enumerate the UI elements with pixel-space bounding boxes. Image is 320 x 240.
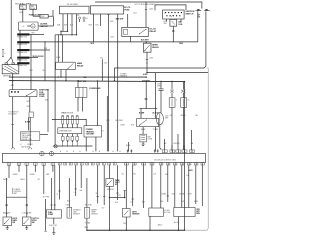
stub wire a [57,165,61,199]
wire top feed vertical [145,2,153,27]
svg-text:GRN/B: GRN/B [179,194,184,196]
wire top feed [95,2,202,9]
switch S3 label [32,218,40,224]
ignition coil assembly [9,90,37,97]
wire capacitor drops [172,107,184,151]
fusible link label dark [29,14,41,16]
cross junction a [170,90,174,93]
svg-text:B: B [20,144,21,146]
label B-SER [25,121,31,123]
ECU bottom pins middle [125,163,154,165]
svg-text:1.25B: 1.25B [149,57,153,59]
svg-text:TEMP: TEMP [91,212,95,214]
wire switch sub drop [172,26,174,42]
wire corner up to connector [197,11,199,42]
exhaust gas sensor label [73,209,81,216]
bracket marker [2,50,6,57]
svg-text:FUSIBLE LINK: FUSIBLE LINK [17,52,27,54]
HOT IN RUN label [135,3,156,6]
ignition coil label [39,90,48,99]
label GRN [66,204,70,206]
knock sensor box [106,179,114,187]
ECU top connector circle b [49,151,54,156]
svg-text:CONTROL: CONTROL [13,191,21,193]
verticals to ECU mid [107,81,128,151]
label B-SER mid [139,112,159,114]
wire x184 long [184,82,186,152]
connector ticks EGI wires [50,204,56,206]
water temp sensor label [91,209,99,216]
fusible link bar stack [17,33,29,67]
detonation sensor label [132,212,140,216]
knock sensor label [115,179,121,186]
throttle valve switch box [137,118,159,126]
svg-text:1.25B: 1.25B [149,9,153,11]
svg-text:SENSOR: SENSOR [132,214,140,216]
FL holder label [67,4,79,6]
connector bars right [157,83,164,90]
ECU bottom pins left [7,163,54,166]
fusible link symbol F/L a [77,15,81,22]
wire condenser feed [77,80,78,88]
wire distributor ground run [53,142,93,147]
label TO TAIL [85,221,91,224]
fusible link symbol F/L b [83,17,88,22]
resistor R1 box [140,134,147,142]
svg-text:W-B: W-B [67,200,70,202]
svg-text:SLT PRK: SLT PRK [43,197,50,199]
wire to voltage regulator [33,15,40,17]
wire bar3 right [30,48,51,50]
svg-text:CONDENSER: CONDENSER [89,88,101,90]
wire long vertical left of relay [104,15,114,152]
labels below capacitors [170,115,198,117]
wire EGI pair [52,165,55,210]
labels mid verticals [106,120,131,147]
svg-text:PPL: PPL [118,195,121,197]
stub wire d [96,165,99,203]
battery B1 [2,57,19,74]
condenser label [89,88,101,90]
wire FL2 drop [67,14,69,32]
wire branch y197 [6,178,27,217]
wires to bottom right boxes [161,165,203,208]
distributor box [58,128,82,134]
svg-text:F/L: F/L [77,15,79,17]
fusible link FL1 [20,5,27,22]
svg-text:B-W: B-W [131,124,135,126]
connector bar top right a [196,9,202,11]
svg-text:SENSOR: SENSOR [73,214,81,216]
AC speed switch box [149,208,164,216]
svg-text:F: F [5,53,6,55]
svg-text:SENSOR: SENSOR [107,189,115,191]
spark plug set upper [62,116,79,128]
wire coil right node [45,89,49,132]
wire left ECU drop [11,112,14,149]
svg-text:GM: GM [83,77,86,79]
ECU bottom pins mid [58,163,116,165]
ECU top pin pairs [162,150,194,153]
dark label row right of bars [33,56,45,58]
svg-text:B-SER: B-SER [139,112,145,114]
svg-text:RELAY: RELAY [150,30,157,33]
svg-text:FUSIBLE LINK: FUSIBLE LINK [29,14,41,16]
svg-text:B-W: B-W [111,37,115,39]
svg-text:TOR UNIT: TOR UNIT [86,133,95,135]
ignition switch label [185,11,194,15]
wires below pins left [9,165,53,172]
wire inhibitor top [146,41,147,43]
wire right edge drop [185,68,209,230]
ignition switch S1 [163,10,185,19]
exhaust gas sensor box [67,208,72,219]
accessory block label [178,22,183,26]
svg-text:F/L: F/L [86,18,88,20]
accessory block box [170,19,177,26]
svg-text:GHT: GHT [181,201,184,203]
wire condenser drops [78,98,83,105]
wire coil ECU drop pair [28,112,33,149]
svg-text:W-R B-W W-R: W-R B-W W-R [33,56,45,58]
main relay label [77,62,84,67]
wire note link [40,134,48,136]
extra labels texture top [16,13,167,62]
svg-text:G-B: G-B [79,190,82,192]
oval condenser C2 [156,113,163,125]
EGI control box [47,210,62,218]
ground below S3 [25,226,28,230]
fuse block 2 box [90,6,123,14]
labels y201 right [160,201,199,203]
wire condenser to plug bus [78,104,83,112]
svg-text:BLK WHT: BLK WHT [141,40,150,42]
svg-text:SW: SW [12,222,15,224]
wires into right pins [165,130,192,150]
labels y194 right [162,194,192,196]
svg-text:B-R-BLK: B-R-BLK [174,143,181,145]
connector ticks S2 wire [5,205,7,213]
svg-text:SLT: SLT [37,179,40,181]
wire switch drop b [180,19,182,23]
svg-text:HOT IN RUN AND START: HOT IN RUN AND START [135,3,156,6]
refer note box [20,132,40,141]
wire box2 to x117 [116,14,125,81]
svg-text:RELAY: RELAY [77,65,84,68]
svg-text:~ G: ~ G [21,26,25,28]
inhibitor relay label [152,45,159,49]
labels y179 [3,178,40,181]
wire relay bottom drop [129,36,131,42]
node: HOT AT ALL TIMES label [15,2,32,5]
svg-text:W-L: W-L [100,58,103,60]
wire to main relay 1 [58,34,59,62]
labels below pins left [13,174,50,176]
svg-text:SWITCH: SWITCH [185,14,193,16]
to main harness note [120,73,127,78]
alternator U1 [18,22,38,30]
wire x184 to bus [184,151,186,230]
svg-text:Cs: Cs [187,99,189,101]
svg-text:W-B W-SER: W-B W-SER [21,146,31,148]
svg-text:LG/B: LG/B [188,194,192,196]
svg-text:W-B: W-B [123,223,126,225]
svg-text:YEL GRN: YEL GRN [85,204,93,206]
connector A/T label [198,13,201,18]
EC relay label [150,28,157,32]
svg-text:PUMP: PUMP [48,214,54,216]
vehicle speed sensor label [196,209,200,215]
wire W-R label [19,12,23,14]
wire PT feeds [86,81,97,126]
connector circle-cross a [54,145,57,148]
svg-text:ACT TAN: ACT TAN [78,80,86,83]
spark plugs label [61,112,74,115]
wire x143 drop [142,165,146,208]
labels above right pins [164,142,193,145]
wire throttle feed drop [145,73,156,109]
cross junction b [181,90,185,93]
wire FL3 drop [71,14,73,35]
connector ticks S3 wire [26,205,28,213]
right bus components feed [161,82,184,90]
wire to main relay 2 [62,35,64,62]
svg-text:RELAY: RELAY [152,46,159,49]
svg-text:S GM: S GM [56,57,61,59]
ECU top connector circle a [40,151,45,156]
label 4C SPD [164,210,171,214]
svg-text:BLK WHT: BLK WHT [116,19,125,21]
wire检 y117 labels [120,124,134,126]
wire coil left drop [12,97,14,112]
wire sw1 drop [6,178,8,217]
wire branch knock [109,191,126,199]
water temp sensor box [85,208,90,219]
svg-text:GB: GB [195,115,197,117]
vehicle speed sensor box [174,208,195,217]
label SLT PRK [43,197,50,199]
svg-text:W-L: W-L [122,174,125,176]
stub wire c [79,165,82,192]
resistor label [147,136,153,140]
ASCD note text [12,188,21,195]
Y connector pins a [127,149,133,152]
label ASCD bottom [158,223,163,226]
svg-text:SENSOR: SENSOR [91,214,99,216]
svg-text:REFER TO: REFER TO [22,133,31,135]
wire bar1 right [30,33,45,35]
stub wire right e [167,165,169,202]
svg-text:W-B: W-B [43,70,46,72]
capacitor Cb [181,93,190,108]
svg-text:NES: NES [160,201,163,203]
svg-text:SPARK PLUGS: SPARK PLUGS [61,112,74,115]
Y connector pins b [154,149,159,152]
wire resistor feed [142,127,144,135]
stub wire mid g [115,165,119,204]
wire x151 drop [151,165,153,208]
svg-text:W-B: W-B [164,23,167,25]
svg-text:UNIT: UNIT [13,193,17,195]
wire long x55 drop [54,35,56,145]
power transistor label [102,131,104,133]
svg-text:FUSIBLE LINK: FUSIBLE LINK [17,36,27,38]
wire bar4 right [30,57,39,59]
labels above ECU small [20,144,33,146]
svg-text:B-SER: B-SER [13,174,19,176]
svg-text:DISTRIBUTOR: DISTRIBUTOR [59,131,72,133]
wire coil bottom W-B [27,97,31,112]
wire main relay drops [60,70,66,82]
oval condenser label [165,115,169,119]
svg-text:M/T: M/T [198,16,201,18]
wire box2 drop a [93,14,95,42]
wire labels row [57,24,99,27]
wire detonation feed [126,165,133,208]
label ASCD below [188,169,193,172]
wire detonation to bus [123,217,126,230]
svg-text:B-LG/B: B-LG/B [174,222,179,224]
svg-text:ELECTRIC: ELECTRIC [49,225,58,227]
label YEL GRN [85,204,93,206]
EC relay K1 [122,27,149,36]
svg-text:FUSE: FUSE [124,10,130,12]
switch S2 label [12,217,18,224]
svg-text:FUSE: FUSE [20,8,24,10]
stub wire mid f [132,165,134,206]
svg-text:B-SER: B-SER [30,174,36,176]
labels above switches [3,212,32,215]
junction bus dots [12,76,185,82]
svg-text:B-Y: B-Y [102,207,105,209]
wire PT drops [86,137,96,151]
ground below resistor [142,142,145,146]
svg-text:BATTERY: BATTERY [142,79,151,82]
wire switch drop a [166,19,168,22]
wire ac box to bus [149,216,151,230]
power transistor box [84,126,102,137]
svg-text:ECU (ECCS CONTROL UNIT): ECU (ECCS CONTROL UNIT) [154,159,176,161]
svg-text:SW: SW [32,222,35,224]
node GM on battery wire [11,84,14,87]
svg-text:COND: COND [39,96,45,98]
wire battery to bus [12,74,14,125]
svg-text:B: B [57,194,58,196]
wire throttle drop to ECU [154,127,156,152]
wire alternator to bar stack [19,30,21,33]
battery label [3,75,12,78]
wire long W-R run [58,41,131,45]
extra labels under pins right [122,174,190,178]
svg-text:CONN: CONN [147,139,153,141]
label SENSOR [107,189,115,191]
ECU bottom pins right [160,163,205,165]
inhibitor relay K2 [143,43,151,52]
svg-text:W-SER: W-SER [27,144,33,146]
svg-text:FUSIBLE LINK: FUSIBLE LINK [17,44,27,46]
wire FL1 drop [62,14,64,32]
junction node a [60,31,68,35]
wire SLT drop2 [44,199,46,231]
wire alternator output [38,16,53,26]
wire knock drop [109,165,111,230]
wires bottom left drops [9,172,44,178]
labels below throttle box [141,129,159,131]
wire mid horizontal run [143,72,208,76]
svg-text:BLK WHT: BLK WHT [116,120,124,122]
switch S3 box [22,217,31,226]
svg-text:Y-B/W: Y-B/W [120,124,125,126]
wire exhaust feed [67,178,70,208]
wire W-L right [100,58,103,81]
detonation sensor box [122,209,130,218]
bus ground wire bottom [87,230,185,231]
ground below S2 [6,226,9,230]
wire EGI ground [49,218,58,235]
bus wire GM [9,76,147,79]
svg-text:4C SPD: 4C SPD [164,210,170,212]
wire fuse to relay [127,14,129,27]
wire FL4 drop [76,14,78,35]
wire box2 drop b [100,14,102,26]
wire bar1 to coil drop [30,34,34,89]
wire bar2 right [30,41,59,80]
capacitor Ca [169,93,178,108]
wire SLT drop [43,178,45,194]
stub wire left h [102,165,106,209]
switch S2 box [3,217,12,226]
svg-text:CLUTCH SW: CLUTCH SW [22,213,32,215]
wire vss to bus [174,217,179,231]
svg-text:GRN/L: GRN/L [162,194,167,196]
wire power transistor link [52,119,87,120]
to ignition coil note [8,112,19,116]
fusible link FL2 [30,5,37,16]
wire battery feed from top [10,0,11,58]
connector bar top right b [204,9,210,11]
pin number dots [60,150,120,153]
svg-text:TERIZED: TERIZED [22,137,30,139]
wire right outer vertical [114,11,206,81]
main relay K3 [56,62,76,69]
voltage regulator box [40,10,53,18]
wire water temp to bus [85,218,89,231]
wire water temp feed [86,178,88,208]
wire inhibitor bottom [146,52,153,72]
fusible link holder box [59,6,89,14]
wire collect [55,34,77,35]
wire switch feed [155,5,186,10]
wire W-B run right [130,40,198,45]
wire bar interlinks [19,36,21,63]
ECU engine control unit [2,153,205,162]
alternator label [40,23,48,28]
wire oval drop [160,125,161,150]
spark plug terminals lower [61,134,78,142]
ECU label above [21,146,31,148]
svg-text:B-SER: B-SER [25,121,31,123]
svg-text:NATOR: NATOR [40,25,48,28]
stub wire b [74,165,77,196]
bus wire ACT TAN [9,79,185,82]
condenser C1 [75,88,87,98]
fuse block 2 label [124,7,131,11]
svg-text:G-B: G-B [172,194,175,196]
wire x161 down [160,90,162,112]
throttle switch feed [140,96,158,118]
